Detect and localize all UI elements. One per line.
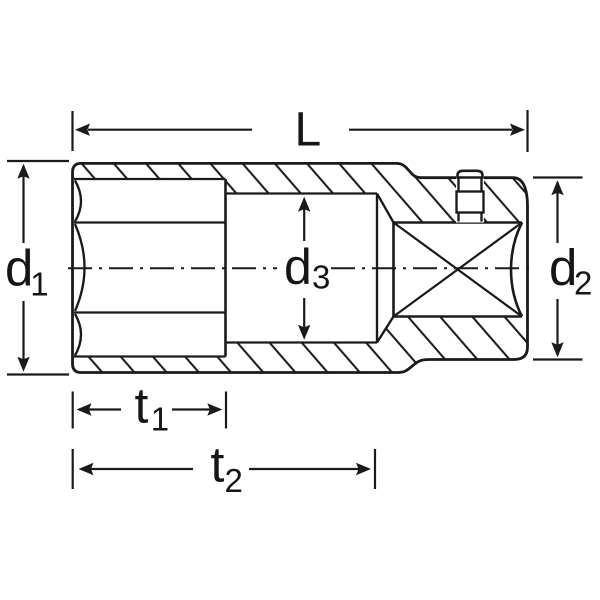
arrowhead L left <box>75 124 90 136</box>
hatched wall section bottom <box>73 317 528 373</box>
svg-text:1: 1 <box>30 266 48 303</box>
bore end face <box>376 194 378 343</box>
drive square bottom edge <box>394 315 523 318</box>
svg-text:2: 2 <box>225 462 243 499</box>
dimension t1 line right <box>172 408 219 410</box>
dimension d1 extension top <box>7 160 69 162</box>
centre line left part <box>68 267 277 269</box>
drive square diagonal 2 <box>394 223 523 317</box>
dimension L extension right <box>526 110 528 152</box>
inner bottom wall line <box>74 355 226 357</box>
cone edge bottom <box>377 317 394 343</box>
dimension t2 extension left <box>72 449 74 489</box>
arrowhead t1 right <box>207 403 222 415</box>
dimension d2 extension top <box>533 176 583 178</box>
bore bottom line <box>226 341 378 343</box>
dimension d1 extension bottom <box>7 373 69 375</box>
dimension L extension left <box>71 111 73 151</box>
svg-text:2: 2 <box>574 265 592 302</box>
drive square far-side arc <box>511 223 522 317</box>
arrowhead t1 left <box>77 403 92 415</box>
dimension L line left <box>88 129 252 131</box>
dimension t1 extension right <box>225 392 227 429</box>
detent pin hole blank <box>456 176 484 223</box>
hex opening arc lower <box>75 314 81 356</box>
bore top line <box>226 192 378 194</box>
svg-text:t: t <box>135 378 149 434</box>
arrowhead t2 left <box>79 463 94 475</box>
dimension d2 line bottom <box>556 299 558 355</box>
drive square diagonal 1 <box>394 223 523 317</box>
hex opening arc middle <box>75 224 85 311</box>
hatched wall section top <box>74 164 528 223</box>
hex lower edge line <box>74 311 226 313</box>
socket body outer outline <box>73 163 528 372</box>
svg-text:1: 1 <box>151 401 169 438</box>
arrowhead d2 down <box>551 342 563 357</box>
detent pin stub left <box>457 213 459 222</box>
svg-text:3: 3 <box>312 259 330 296</box>
dimension t1 extension left <box>72 392 74 429</box>
dimension d1 line bottom <box>22 301 24 367</box>
dimension d3 arrow up <box>303 201 305 241</box>
arrowhead t2 right <box>356 463 371 475</box>
detent pin stub right <box>480 213 482 222</box>
cone edge top <box>377 194 394 223</box>
dimension t1 line left <box>79 408 121 410</box>
dimension L line right <box>349 129 512 131</box>
hex opening arc upper <box>75 181 81 222</box>
drive square top edge <box>394 221 523 224</box>
detent pin body <box>457 192 484 213</box>
arrowhead d2 up <box>551 180 563 195</box>
dimension d3 arrow down <box>303 298 305 335</box>
dimension d1 line top <box>22 166 24 243</box>
inner top wall line <box>74 178 226 180</box>
dimension d2 extension bottom <box>533 358 583 360</box>
detent pin neck right <box>480 178 482 192</box>
svg-text:d: d <box>5 240 33 297</box>
dimension t2 line left <box>82 468 193 470</box>
arrowhead d1 down <box>17 357 29 372</box>
detent pin cap <box>458 171 483 178</box>
svg-text:d: d <box>284 239 312 295</box>
dimension d2 line top <box>556 182 558 243</box>
arrowhead L right <box>510 124 525 136</box>
dimension t2 extension right <box>374 449 376 489</box>
drive square left edge <box>392 223 395 317</box>
svg-text:t: t <box>211 437 225 493</box>
detent pin neck left <box>457 178 459 192</box>
hex upper edge line <box>74 221 226 223</box>
hex cavity end face <box>224 179 227 357</box>
arrowhead d1 up <box>17 164 29 179</box>
centre line right part <box>331 267 530 269</box>
dimension t2 line right <box>249 468 367 470</box>
svg-text:L: L <box>295 104 322 157</box>
